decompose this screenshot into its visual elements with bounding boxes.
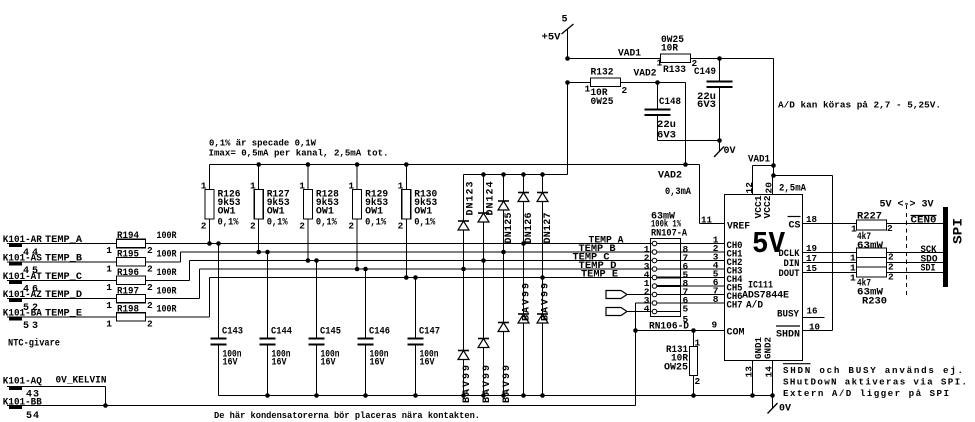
wire TEMP_B — [146, 250, 653, 262]
resistor R129 9k53 — [348, 165, 388, 270]
diode BAV99 clamp TEMP_C to 0V — [478, 261, 493, 404]
svg-text:1: 1 — [398, 181, 404, 192]
svg-text:Extern A/D ligger på SPI: Extern A/D ligger på SPI — [783, 388, 949, 399]
svg-text:COM: COM — [727, 328, 745, 339]
svg-text:10R: 10R — [661, 43, 678, 54]
svg-text:De här kondensatorerna bör pla: De här kondensatorerna bör placeras nära… — [214, 410, 480, 421]
svg-text:2: 2 — [147, 300, 153, 311]
port flag RN106 input upper — [606, 291, 652, 299]
connector K101-AQ pin 43 0V_KELVIN — [3, 376, 108, 408]
svg-text:C148: C148 — [659, 97, 681, 108]
labels TEMP_A-E at network — [573, 236, 624, 281]
svg-text:DN125: DN125 — [504, 213, 515, 244]
svg-text:100R: 100R — [157, 286, 177, 297]
svg-text:R227: R227 — [857, 212, 882, 223]
capacitor C144 100n 16V — [260, 252, 293, 396]
svg-text:K101-AS: K101-AS — [3, 253, 42, 264]
svg-text:NTC-givare: NTC-givare — [8, 337, 60, 349]
svg-text:OW25: OW25 — [664, 362, 688, 373]
svg-text:SDI: SDI — [921, 264, 936, 275]
pin numbers RN107 RN106 right — [683, 244, 689, 325]
svg-text:TEMP_A: TEMP_A — [45, 235, 82, 246]
svg-text:1: 1 — [657, 58, 663, 69]
svg-text:1: 1 — [585, 84, 591, 95]
svg-text:VAD2: VAD2 — [634, 69, 657, 80]
svg-text:K101-BB: K101-BB — [3, 398, 42, 409]
svg-text:TEMP_C: TEMP_C — [45, 272, 82, 283]
svg-text:C143: C143 — [222, 327, 243, 338]
svg-text:2: 2 — [398, 221, 404, 232]
wire SCK to SPI — [887, 245, 944, 256]
wire +5V to R132 — [565, 80, 590, 85]
svg-text:K101-BA: K101-BA — [3, 308, 42, 319]
svg-text:VAD1: VAD1 — [618, 49, 641, 60]
ground 0V port (top) — [714, 141, 736, 158]
wire +5V down to diode clamp rail — [464, 83, 568, 177]
node VAD2 label — [634, 69, 657, 80]
wire CS pin 18 — [803, 214, 857, 225]
wire kelvin up to COM and network — [633, 303, 651, 406]
svg-text:R133: R133 — [663, 65, 686, 76]
svg-text:5: 5 — [683, 314, 689, 325]
svg-text:BUSY: BUSY — [777, 310, 799, 321]
svg-text:1: 1 — [348, 181, 354, 192]
svg-text:1: 1 — [106, 245, 112, 256]
svg-text:A/D kan köras på 2,7 - 5,25V.: A/D kan köras på 2,7 - 5,25V. — [778, 100, 941, 111]
capacitor C145 100n 16V — [309, 261, 342, 396]
svg-text:Imax= 0,5mA per kanal, 2,5mA t: Imax= 0,5mA per kanal, 2,5mA tot. — [209, 147, 389, 158]
svg-text:20: 20 — [764, 182, 775, 194]
svg-text:C144: C144 — [271, 327, 292, 338]
svg-text:R198: R198 — [117, 305, 139, 316]
wire 0V below C148 C149 — [658, 138, 722, 143]
svg-text:5V <-> 3V: 5V <-> 3V — [880, 200, 934, 211]
svg-text:2: 2 — [887, 223, 893, 234]
svg-text:54: 54 — [26, 411, 39, 422]
svg-text:1: 1 — [250, 181, 256, 192]
wire DIN pin 17 — [803, 253, 857, 264]
connector K101-BB pin 54 0V kelvin rail — [3, 398, 636, 422]
svg-text:1: 1 — [299, 181, 305, 192]
svg-text:1: 1 — [695, 338, 701, 349]
resistor R127 9k53 — [250, 165, 290, 253]
resistor network body RN107/RN106 — [651, 239, 681, 317]
svg-text:R230: R230 — [862, 297, 887, 308]
svg-text:100R: 100R — [157, 305, 177, 316]
svg-text:TEMP_D: TEMP_D — [45, 290, 82, 301]
svg-text:9: 9 — [712, 320, 718, 331]
svg-text:BAV99: BAV99 — [482, 365, 493, 403]
resistor R197 100R — [106, 286, 176, 311]
capacitor C146 100n 16V — [358, 269, 391, 396]
resistor R194 100R — [106, 231, 176, 256]
svg-text:2: 2 — [250, 221, 256, 232]
wire COM pin 9 — [636, 320, 725, 333]
svg-text:K101-AQ: K101-AQ — [3, 377, 42, 388]
svg-text:4: 4 — [644, 303, 650, 314]
svg-text:0,1%: 0,1% — [267, 218, 288, 229]
svg-text:2,5mA: 2,5mA — [779, 184, 806, 195]
op IC111 ADS7844E A/D converter — [725, 195, 803, 361]
diode BAV99 clamp TEMP_A to 0V — [518, 244, 533, 396]
resistor R133 — [657, 35, 698, 76]
wire 0V ground rail — [219, 393, 775, 398]
svg-text:K101-AZ: K101-AZ — [3, 290, 42, 301]
svg-text:R132: R132 — [591, 68, 614, 79]
svg-text:2: 2 — [147, 318, 153, 329]
text NTC-givare — [8, 337, 60, 349]
svg-text:VAD1: VAD1 — [748, 155, 770, 166]
resistor R128 9k53 — [299, 165, 339, 261]
wire VAD2 rail over divider resistors — [210, 162, 700, 167]
svg-text:DN124: DN124 — [486, 182, 497, 216]
svg-text:1: 1 — [851, 224, 857, 235]
wire SDO to SPI — [887, 254, 944, 265]
svg-text:CEN0: CEN0 — [911, 215, 937, 226]
svg-text:2: 2 — [147, 245, 153, 256]
svg-text:100R: 100R — [157, 250, 177, 261]
svg-text:DN127: DN127 — [543, 213, 554, 244]
svg-text:VREF: VREF — [727, 221, 750, 232]
svg-text:C147: C147 — [419, 327, 440, 338]
svg-text:1: 1 — [201, 181, 207, 192]
svg-text:11: 11 — [701, 215, 712, 226]
svg-text:CH7: CH7 — [727, 301, 743, 312]
connector K101-AT pin 46 TEMP_C — [3, 272, 117, 296]
svg-text:2: 2 — [299, 221, 305, 232]
svg-text:SHutDowN aktiveras via SPI.: SHutDowN aktiveras via SPI. — [783, 377, 967, 388]
svg-text:10: 10 — [809, 322, 820, 333]
svg-text:TEMP_E: TEMP_E — [45, 308, 82, 319]
svg-text:0V: 0V — [724, 146, 736, 157]
svg-text:CS: CS — [789, 221, 801, 232]
wire SDI to SPI — [887, 264, 944, 275]
diode BAV99 clamp TEMP_E to 0V — [537, 278, 552, 396]
diode DN125 clamp to +5V — [498, 175, 515, 253]
power +5V port (pin 5) — [542, 15, 574, 59]
resistor R195 100R — [106, 250, 176, 275]
svg-text:OW1: OW1 — [267, 207, 285, 218]
svg-text:14: 14 — [764, 366, 775, 378]
svg-text:16V: 16V — [321, 358, 336, 369]
wire TEMP_C — [146, 258, 653, 280]
svg-text:R196: R196 — [117, 268, 139, 279]
svg-text:BAV99: BAV99 — [462, 365, 473, 403]
svg-text:2: 2 — [622, 85, 628, 96]
connector K101-AZ pin 52 TEMP_D — [3, 290, 117, 314]
svg-text:TEMP_B: TEMP_B — [45, 253, 82, 264]
wire VAD1 tie to SHDN pin 10 — [774, 176, 833, 333]
svg-text:16V: 16V — [420, 358, 435, 369]
resistor R126 9k53 — [201, 165, 241, 244]
svg-text:SHDN: SHDN — [776, 329, 800, 340]
svg-text:C149: C149 — [694, 67, 716, 78]
text tolerance note — [209, 138, 389, 159]
resistor R130 9k53 — [398, 165, 438, 278]
text SHDN usage note — [783, 364, 967, 400]
pin numbers RN107 RN106 left — [644, 244, 650, 314]
diode BAV99 clamp TEMP_B to 0V — [498, 252, 513, 403]
svg-text:VAD2: VAD2 — [658, 171, 682, 182]
svg-text:SHDN och BUSY används ej.: SHDN och BUSY används ej. — [783, 365, 963, 376]
bus bar SPI — [943, 207, 966, 287]
svg-text:C145: C145 — [320, 327, 341, 338]
svg-text:0,3mA: 0,3mA — [665, 187, 691, 198]
svg-text:6V3: 6V3 — [657, 130, 676, 141]
svg-text:VCC2: VCC2 — [762, 195, 773, 218]
diode DN124 clamp to +5V — [478, 175, 497, 261]
capacitor C148 22u 6V3 — [645, 83, 682, 142]
svg-text:63mW: 63mW — [857, 241, 883, 252]
svg-text:DOUT: DOUT — [779, 269, 800, 280]
svg-text:1: 1 — [106, 263, 112, 274]
svg-text:100R: 100R — [157, 231, 177, 242]
svg-text:13: 13 — [744, 366, 755, 378]
svg-text:0,1%: 0,1% — [316, 218, 337, 229]
wire DCLK pin 19 — [803, 243, 857, 254]
svg-text:BAV99: BAV99 — [541, 283, 552, 321]
svg-text:C146: C146 — [369, 327, 390, 338]
text capacitor placement note — [214, 410, 480, 421]
diode DN127 clamp to +5V — [537, 175, 554, 278]
svg-text:R195: R195 — [117, 250, 139, 261]
svg-text:GND2: GND2 — [763, 337, 774, 359]
svg-text:16: 16 — [807, 306, 818, 317]
diode DN126 clamp to +5V — [518, 175, 535, 244]
svg-text:SPI: SPI — [952, 218, 966, 244]
wire GND2 pin 14 — [764, 361, 775, 396]
resistor R131 10R — [664, 331, 701, 396]
wire DOUT pin 15 — [803, 263, 857, 274]
svg-text:TEMP_E: TEMP_E — [581, 270, 618, 281]
svg-text:18: 18 — [806, 214, 817, 225]
svg-text:0,1%: 0,1% — [365, 218, 386, 229]
svg-text:2: 2 — [147, 282, 153, 293]
port flag RN106 input lower — [606, 308, 652, 316]
svg-text:100R: 100R — [157, 268, 177, 279]
text A/D supply note — [778, 100, 941, 111]
wire TEMP_E — [146, 275, 653, 317]
svg-text:6V3: 6V3 — [697, 100, 716, 111]
wire GND1 pin 13 — [744, 361, 755, 396]
resistor network R230 4k7 — [850, 248, 894, 308]
wire VREF pin 11 — [700, 165, 725, 226]
svg-text:5: 5 — [562, 15, 568, 26]
svg-text:16V: 16V — [370, 358, 385, 369]
svg-text:+5V: +5V — [542, 33, 561, 44]
svg-text:OW1: OW1 — [365, 207, 383, 218]
svg-text:BAV99: BAV99 — [502, 365, 513, 403]
wire VAD1 from R133 to C149 and down to IC supply pins — [691, 56, 776, 178]
svg-text:RN107-A: RN107-A — [651, 229, 687, 240]
svg-text:DN123: DN123 — [466, 182, 477, 216]
wires network to IC CH0-CH7 with pin numbers — [681, 234, 725, 304]
svg-text:0,1%: 0,1% — [414, 218, 435, 229]
connector K101-AR pin 44 TEMP_A — [3, 235, 117, 259]
svg-text:0V_KELVIN: 0V_KELVIN — [56, 376, 107, 387]
capacitor C147 100n 16V — [408, 278, 441, 396]
svg-text:5: 5 — [683, 303, 689, 314]
svg-text:BAV99: BAV99 — [522, 283, 533, 321]
svg-text:15: 15 — [806, 263, 817, 274]
wire TEMP_A — [146, 241, 653, 246]
wire VCC2 pin 20 — [764, 176, 807, 195]
node VAD1 label at IC — [748, 155, 770, 166]
svg-text:2: 2 — [147, 263, 153, 274]
svg-text:1: 1 — [106, 282, 112, 293]
wire VAD2 from R132 to C148 and down — [621, 80, 688, 167]
wire CEN0 to SPI — [887, 215, 944, 226]
svg-text:1: 1 — [106, 318, 112, 329]
resistor R227 4k7 — [851, 212, 893, 253]
connector K101-BA pin 53 TEMP_E — [3, 308, 117, 332]
svg-text:1: 1 — [106, 300, 112, 311]
svg-text:0W25: 0W25 — [591, 97, 614, 108]
wire VAD1 from +5V to R133 and C149 — [565, 49, 661, 61]
svg-text:0V: 0V — [779, 404, 791, 415]
svg-text:K101-AR: K101-AR — [3, 235, 42, 246]
boundary 5V to 3V dashed line — [880, 200, 934, 295]
svg-text:OW1: OW1 — [218, 207, 236, 218]
svg-text:16V: 16V — [223, 358, 238, 369]
svg-text:8: 8 — [713, 294, 719, 305]
svg-text:12: 12 — [744, 182, 755, 194]
svg-text:K101-AT: K101-AT — [3, 272, 42, 283]
svg-text:16V: 16V — [272, 358, 287, 369]
svg-text:1: 1 — [850, 273, 856, 284]
svg-text:2: 2 — [695, 376, 701, 387]
capacitor C149 22u 6V3 — [694, 59, 733, 141]
resistor network RN107-A / RN106-D labels — [649, 211, 689, 332]
svg-text:OW1: OW1 — [414, 207, 432, 218]
node VAD2 label at A/D — [658, 171, 691, 199]
connector K101-AS pin 45 TEMP_B — [3, 253, 117, 277]
wire TEMP_D — [146, 267, 653, 299]
resistor R198 100R — [106, 305, 176, 330]
svg-text:DN126: DN126 — [524, 213, 535, 244]
capacitor C143 100n 16V — [211, 244, 244, 396]
svg-text:R194: R194 — [117, 231, 139, 242]
resistor R196 100R — [106, 268, 176, 293]
svg-text:2: 2 — [348, 221, 354, 232]
svg-text:R197: R197 — [117, 286, 139, 297]
svg-text:OW1: OW1 — [316, 207, 334, 218]
wire BUSY pin 16 stub — [803, 306, 825, 318]
diode BAV99 clamp TEMP_D to 0V — [458, 269, 473, 403]
ground 0V port (bottom) — [768, 396, 792, 415]
svg-text:A/D: A/D — [746, 300, 763, 312]
svg-text:2: 2 — [201, 221, 207, 232]
svg-text:22u: 22u — [657, 120, 676, 131]
diode DN123 clamp to +5V — [458, 175, 477, 270]
resistor R132 — [585, 68, 628, 108]
svg-text:2: 2 — [888, 272, 894, 283]
wire VCC1 pin 12 — [744, 166, 774, 195]
svg-text:0,1%: 0,1% — [218, 218, 239, 229]
